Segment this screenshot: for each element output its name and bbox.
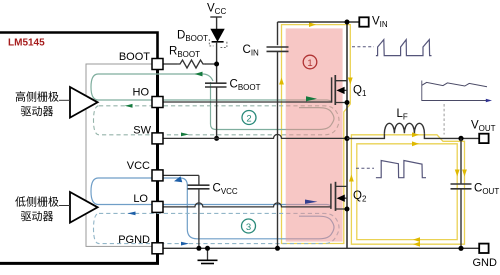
svg-text:3: 3	[246, 222, 251, 233]
power input loop highlight (yellow)	[282, 25, 351, 244]
green arrow boot loop top left	[195, 72, 203, 77]
pin BOOT	[152, 59, 163, 70]
svg-text:BOOT: BOOT	[119, 51, 150, 63]
svg-text:驱动器: 驱动器	[21, 105, 54, 118]
green arrow dashed ring top left	[125, 104, 133, 108]
wire CVCC vertical upper	[198, 175, 200, 185]
driver triangle U1B low-side	[70, 192, 98, 223]
node CBOOT-SW junction dot	[214, 136, 219, 141]
svg-text:CBOOT: CBOOT	[230, 79, 261, 93]
output loop highlight outer (yellow)	[351, 135, 464, 244]
node COUT ground dot	[458, 246, 463, 251]
navy arrow lo gate drive right	[305, 200, 318, 204]
wire CIN vertical upper	[277, 22, 279, 45]
bold ground return trace bottom left	[0, 64, 158, 263]
svg-text:VCC: VCC	[207, 3, 226, 17]
terminal VIN	[359, 17, 368, 26]
yellow arrow output loop left up	[349, 175, 354, 182]
yellow arrow top power loop	[309, 22, 316, 27]
svg-text:GND: GND	[473, 257, 498, 269]
blue arrow vcc loop top left	[174, 176, 182, 182]
pin LO	[152, 201, 163, 212]
diode DBOOT	[211, 29, 224, 41]
svg-text:COUT: COUT	[474, 183, 499, 197]
yellow arrow output outer right down	[462, 170, 467, 177]
node VOUT junction dot	[458, 136, 463, 141]
yellow arrow power loop right down at Q1	[348, 78, 353, 85]
high-side loop dashed ring	[94, 106, 340, 135]
resistor RBOOT	[177, 60, 206, 68]
wire VIN top rail	[278, 21, 360, 23]
node CIN ground junction dot	[275, 246, 280, 251]
low-side loop solid return via CVCC	[187, 185, 334, 239]
wire BOOT pin to RBOOT	[163, 63, 177, 65]
pin PGND	[152, 243, 163, 254]
VCC supply tick	[210, 16, 222, 18]
svg-text:1: 1	[307, 58, 312, 69]
svg-text:Q2: Q2	[353, 190, 367, 204]
blue arrow dashed ring bottom right	[181, 242, 189, 246]
wire SW row with hop over CIN	[163, 134, 347, 138]
node VIN junction dot	[345, 20, 350, 25]
shaded region loop 1 (pink)	[286, 28, 343, 241]
pin VCC	[152, 170, 163, 181]
wire DBOOT to boot node	[216, 42, 218, 83]
wire HO to Q1 gate	[163, 101, 332, 103]
yellow arrow output inner top right	[412, 141, 419, 146]
svg-text:PGND: PGND	[118, 234, 150, 246]
inductor LF	[347, 133, 479, 138]
high-side loop solid return via CBOOT	[211, 82, 335, 130]
svg-text:HO: HO	[133, 87, 150, 99]
main switch-node vertical wire	[346, 22, 348, 248]
node number 3 circle	[242, 219, 256, 233]
capacitor CVCC	[188, 185, 210, 189]
svg-text:2: 2	[246, 114, 251, 125]
wire VCC to DBOOT	[216, 17, 218, 29]
svg-text:SW: SW	[133, 125, 151, 137]
waveform inductor current ripple	[422, 81, 492, 135]
bold input trace from left edge	[0, 33, 158, 65]
capacitor CBOOT	[205, 83, 227, 87]
waveform SW node voltage top	[352, 40, 432, 56]
svg-text:VIN: VIN	[372, 16, 388, 30]
output loop highlight inner (yellow)	[357, 144, 457, 240]
terminal GND	[479, 244, 488, 253]
bottom ground rail	[163, 247, 479, 249]
wire LO row with hops over CVCC and CIN	[163, 203, 331, 207]
svg-text:RBOOT: RBOOT	[169, 46, 200, 60]
node ground junction dot	[205, 246, 210, 251]
yellow arrow power loop left up	[279, 78, 284, 85]
wire RBOOT to boot node	[206, 63, 217, 65]
node SW junction dot	[344, 136, 349, 141]
wire COUT vertical lower	[460, 189, 462, 249]
svg-text:CVCC: CVCC	[213, 183, 238, 197]
leader line high-side label	[59, 99, 70, 101]
node number 2 circle	[242, 111, 256, 125]
svg-text:LM5145: LM5145	[8, 38, 45, 49]
IC outline box LM5145	[86, 64, 158, 246]
yellow arrow output inner bottom left	[413, 237, 420, 242]
node Q1 source dot	[345, 100, 350, 105]
svg-text:驱动器: 驱动器	[21, 210, 54, 223]
blue arrow dashed ring top left	[128, 212, 136, 216]
waveform Q2 drain voltage	[356, 161, 426, 178]
svg-text:LO: LO	[133, 193, 148, 205]
low-side gate loop solid path (vcc to gate)	[91, 178, 331, 207]
green arrow dashed ring bottom right	[181, 133, 189, 137]
node boot junction dot	[214, 62, 219, 67]
capacitor COUT	[451, 184, 472, 189]
capacitor CIN	[267, 47, 289, 51]
diode DBOOT optional dashed bracket	[209, 39, 213, 46]
leader line low-side label	[59, 205, 70, 207]
green arrow gate drive right	[306, 96, 317, 101]
wire CIN vertical lower	[277, 51, 279, 248]
wire COUT vertical upper	[460, 138, 462, 184]
node CVCC ground dot	[196, 246, 201, 251]
driver triangle U1A high-side	[70, 87, 98, 118]
yellow arrow output outer top right	[412, 132, 419, 137]
svg-text:CIN: CIN	[243, 44, 260, 58]
svg-text:高侧栅极: 高侧栅极	[15, 90, 59, 104]
wire CVCC vertical lower	[198, 189, 200, 249]
wire CBOOT to SW	[216, 87, 218, 138]
node number 1 circle	[303, 55, 317, 69]
svg-text:LF: LF	[397, 108, 408, 122]
high-side gate loop solid path (boot to gate)	[91, 74, 332, 103]
transistor Q2	[331, 182, 347, 211]
pin HO	[152, 97, 163, 108]
yellow arrow output outer bottom left	[413, 242, 420, 247]
pin SW	[152, 133, 163, 144]
terminal VOUT	[479, 134, 488, 143]
svg-text:VOUT: VOUT	[471, 120, 496, 134]
node Q2 source dot	[345, 207, 350, 212]
low-side loop dashed ring	[94, 213, 340, 243]
svg-text:低侧栅极: 低侧栅极	[15, 194, 59, 208]
ground symbol	[207, 248, 209, 259]
svg-text:DBOOT: DBOOT	[177, 30, 208, 44]
yellow arrow output inner right down	[455, 170, 460, 177]
transistor Q1	[332, 75, 347, 105]
svg-text:Q1: Q1	[353, 85, 367, 99]
svg-text:VCC: VCC	[127, 160, 150, 172]
wire VCC pin to CVCC	[163, 174, 199, 176]
